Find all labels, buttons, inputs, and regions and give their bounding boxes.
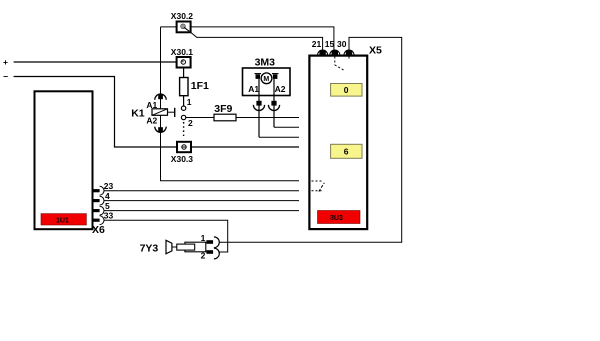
svg-text:A1: A1 — [248, 84, 259, 94]
svg-text:3F9: 3F9 — [214, 103, 232, 115]
1U1 pin 4 — [93, 191, 110, 205]
svg-text:5: 5 — [105, 201, 110, 211]
ECU top pin 15 — [325, 39, 340, 56]
svg-text:X5: X5 — [369, 45, 382, 57]
1U1 pin 33 — [93, 211, 114, 225]
svg-text:A2: A2 — [146, 116, 157, 126]
svg-text:1: 1 — [201, 233, 206, 243]
fuse 3F9 — [214, 103, 236, 121]
svg-text:30: 30 — [337, 39, 347, 49]
wire 1U1 pin 5 to ECU pin 5 — [104, 210, 299, 212]
svg-text:3U3: 3U3 — [330, 215, 343, 222]
ECU block 3U3 — [309, 56, 367, 230]
ECU internal value box 0 (yellow) — [331, 84, 362, 97]
svg-text:33: 33 — [104, 211, 114, 221]
label 3U3 (red) — [318, 211, 361, 224]
motor 3M3 — [243, 56, 291, 137]
connector 7Y3 pin 2 arc — [214, 248, 219, 259]
ECU internal value box 6 (yellow) — [331, 144, 362, 158]
svg-text:4: 4 — [105, 191, 110, 201]
connector K1 pin A2 — [155, 127, 166, 133]
svg-text:2: 2 — [188, 118, 193, 128]
svg-text:X30.2: X30.2 — [171, 11, 193, 21]
wire X30.1 down to fuse 1F1 and contact — [183, 68, 185, 106]
wire X30.2 to ECU pin 15 — [161, 27, 334, 51]
connector 7Y3 pin 1 arc — [214, 237, 219, 248]
svg-text:6: 6 — [344, 147, 349, 157]
contact pin 1 — [181, 97, 191, 111]
ECU internal dashed switch top — [335, 57, 349, 71]
label X5 — [369, 45, 382, 57]
ECU internal dashed contact at pins 6 and 37 — [312, 181, 325, 192]
wire 3M3 A2 to ECU pin 14 — [274, 126, 299, 128]
svg-text:1U1: 1U1 — [56, 217, 69, 224]
svg-text:A2: A2 — [275, 84, 286, 94]
svg-text:7Y3: 7Y3 — [140, 243, 159, 255]
wire X30.2 down through relay K1 coil to ECU pin 6 — [161, 27, 300, 181]
svg-text:3M3: 3M3 — [255, 56, 276, 68]
svg-text:21: 21 — [312, 39, 322, 49]
connector X30.3 — [171, 142, 193, 164]
contact pin 2 — [181, 115, 193, 128]
svg-text:+: + — [3, 57, 8, 67]
connector X30.1 — [171, 47, 193, 68]
wire X30.2 branch to ECU pin 21 — [190, 32, 322, 51]
label 1U1 (red) — [41, 214, 86, 225]
connector K1 pin A1 — [155, 94, 166, 100]
svg-text:23: 23 — [104, 181, 114, 191]
solenoid valve 7Y3 — [140, 233, 213, 261]
svg-text:2: 2 — [201, 251, 206, 261]
wire 1U1 pin 23 to ECU pin 37 — [104, 190, 299, 192]
node - terminal — [3, 72, 8, 82]
ECU top pin 30 — [337, 39, 354, 56]
svg-text:15: 15 — [325, 39, 335, 49]
svg-text:1F1: 1F1 — [191, 80, 209, 92]
connector 3M3 pin A1 — [253, 101, 264, 111]
mechanical link dashes below contact — [183, 122, 185, 136]
svg-text:1: 1 — [187, 97, 192, 107]
wire contact 2 to ECU pin 1 — [186, 117, 299, 119]
svg-text:X6: X6 — [92, 224, 105, 236]
label X6 — [92, 224, 105, 236]
svg-text:X30.1: X30.1 — [171, 47, 193, 57]
node + terminal — [3, 57, 184, 67]
fuse 1F1 — [180, 78, 209, 96]
svg-text:K1: K1 — [131, 108, 145, 120]
1U1 pin 5 — [93, 201, 110, 215]
svg-text:−: − — [3, 72, 8, 82]
connector X30.2 — [171, 11, 193, 32]
ECU top pin 21 — [312, 39, 328, 56]
ECU block 1U1 — [35, 91, 93, 229]
wire 1U1 pin 4 to ECU pin 4 — [104, 200, 299, 202]
relay K1 — [131, 100, 175, 126]
svg-text:0: 0 — [344, 85, 349, 95]
svg-text:M: M — [263, 76, 269, 83]
wire ECU pin 30 to 7Y3 pin 1 — [219, 37, 401, 242]
wire - rail to X30.3 and ECU pin 29 — [14, 77, 299, 148]
wire 1U1 pin 33 to 7Y3 pin 2 — [104, 220, 228, 252]
wire 3M3 A1 to ECU pin 28 — [259, 136, 299, 138]
connector 3M3 pin A2 — [268, 101, 279, 111]
svg-text:X30.3: X30.3 — [171, 154, 193, 164]
1U1 pin 23 — [93, 181, 114, 195]
